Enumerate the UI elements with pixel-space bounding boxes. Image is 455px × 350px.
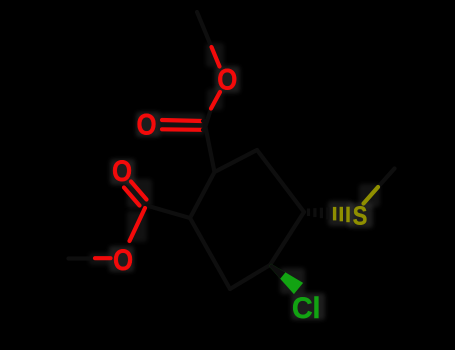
svg-text:O: O: [113, 243, 133, 276]
svg-text:S: S: [353, 202, 368, 231]
svg-text:O: O: [112, 154, 132, 187]
svg-text:Cl: Cl: [292, 293, 320, 326]
svg-text:O: O: [136, 108, 156, 141]
